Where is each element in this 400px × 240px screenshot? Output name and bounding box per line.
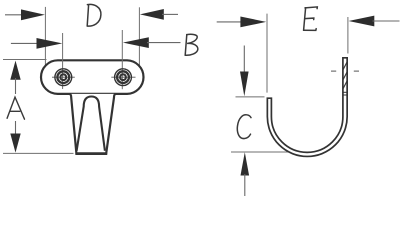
dimension B right arrow xyxy=(123,37,181,48)
dimension A down arrow xyxy=(10,121,20,153)
dimension A bottom reference line xyxy=(3,152,74,154)
hatch mark 3 on stem xyxy=(343,81,347,89)
dimension C up arrow xyxy=(241,152,250,196)
dimension D left arrow xyxy=(5,9,45,20)
dimension C bottom reference line xyxy=(231,151,294,153)
hatch mark 1 on stem xyxy=(343,62,347,70)
label A xyxy=(7,97,24,119)
label E xyxy=(304,7,318,31)
dimension D right extension line xyxy=(138,7,140,65)
dimension C top reference line xyxy=(236,96,265,98)
stem tick 2 xyxy=(343,94,347,96)
left hole middle circle xyxy=(57,71,69,83)
dimension D right arrow xyxy=(140,9,178,20)
label B xyxy=(185,34,198,55)
right hole middle circle xyxy=(117,71,129,83)
hatch mark 2 on stem xyxy=(343,72,347,80)
dimension E right extension line xyxy=(347,17,349,54)
dimension C down arrow xyxy=(240,46,249,97)
centerline dash right xyxy=(354,70,359,72)
right hole crosshair horizontal xyxy=(111,76,135,78)
plate outline (stadium) xyxy=(41,60,144,94)
dimension B right extension line xyxy=(121,30,123,89)
label D xyxy=(87,4,101,26)
hook prong inner arch xyxy=(77,97,105,151)
dimension E right arrow xyxy=(349,16,400,27)
dimension E left extension line xyxy=(266,14,268,93)
centerline dash left xyxy=(331,70,336,72)
left hole outer circle xyxy=(55,69,72,86)
dimension B left extension line xyxy=(62,33,64,89)
left hole crosshair horizontal xyxy=(52,76,75,78)
dimension B left arrow xyxy=(11,38,62,49)
label C xyxy=(237,115,251,139)
stem tick 1 xyxy=(343,91,347,93)
dimension A top reference line xyxy=(3,59,47,61)
hook prong outline (front view) xyxy=(70,94,116,153)
right hole inner circle xyxy=(120,74,126,80)
right hole outer circle xyxy=(115,69,132,86)
hook prong bottom edge xyxy=(75,153,107,155)
dimension D left extension line xyxy=(44,7,46,66)
left hole inner circle xyxy=(60,74,66,80)
dimension E left arrow xyxy=(217,17,267,28)
dimension A up arrow xyxy=(10,61,20,94)
hook side view tube xyxy=(267,58,347,157)
